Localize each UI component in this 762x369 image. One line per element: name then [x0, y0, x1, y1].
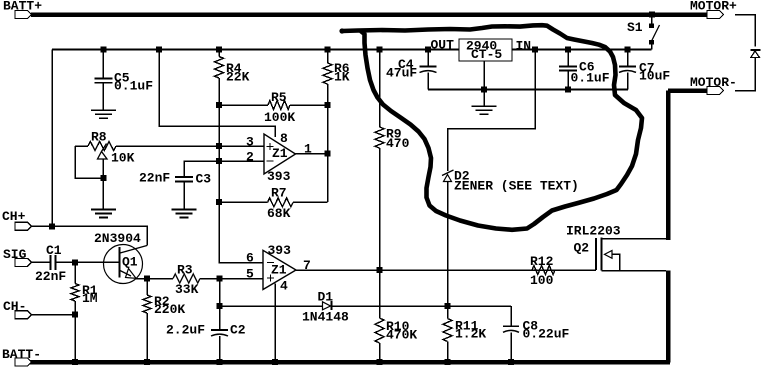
junction output / column — [325, 151, 331, 157]
junction rail / C4 — [425, 47, 431, 53]
svg-text:OUT: OUT — [431, 38, 455, 53]
Q2 source wire — [602, 270, 667, 272]
junction BATT- / R11 — [445, 359, 451, 365]
wire 2940 ground pin — [483, 61, 485, 106]
junction ground rail / 2940 gnd — [481, 87, 487, 93]
resistor R2 — [144, 276, 150, 282]
svg-text:3: 3 — [246, 134, 254, 149]
capacitor C2 — [219, 279, 221, 330]
svg-text:0.1uF: 0.1uF — [571, 70, 610, 85]
junction ground rail / C6 — [565, 87, 571, 93]
junction R8 low end / wiper — [100, 175, 106, 181]
svg-text:1K: 1K — [334, 70, 350, 85]
wire Q2 source to BATT- (thick) — [666, 271, 671, 363]
svg-text:100K: 100K — [264, 110, 295, 125]
junction rail / R6 — [325, 47, 331, 53]
svg-text:6: 6 — [246, 250, 254, 265]
svg-text:Q2: Q2 — [574, 241, 590, 256]
capacitor C4 — [427, 50, 429, 67]
svg-text:10K: 10K — [111, 150, 135, 165]
resistor R6 — [327, 50, 329, 64]
resistor R10 — [379, 270, 381, 318]
junction BATT+ / S1 — [649, 12, 655, 18]
svg-text:22K: 22K — [226, 70, 250, 85]
op-amp Z1 first half (393) — [264, 134, 296, 174]
svg-text:C2: C2 — [230, 323, 246, 338]
svg-text:2N3904: 2N3904 — [94, 231, 141, 246]
junction BATT- / R1 column — [72, 359, 78, 365]
svg-text:Z1: Z1 — [271, 263, 287, 278]
svg-text:22nF: 22nF — [139, 170, 170, 185]
junction BATT- / R2 — [144, 359, 150, 365]
wire column to Z1b pin 6 — [219, 202, 263, 263]
svg-text:393: 393 — [268, 243, 292, 258]
svg-text:ZENER (SEE TEXT): ZENER (SEE TEXT) — [454, 179, 579, 194]
svg-text:4: 4 — [280, 279, 288, 294]
wire diode to MOTOR- — [735, 58, 755, 91]
wire output column down to R7 — [327, 105, 329, 202]
capacitor C7 — [627, 50, 629, 67]
wire left branch down to CH+ — [51, 50, 53, 227]
svg-text:C3: C3 — [196, 171, 212, 186]
ground return rail — [428, 89, 628, 91]
junction C2 node / D1 row — [217, 303, 223, 309]
junction D1 row / D2 / R11 — [445, 303, 451, 309]
svg-text:1.2K: 1.2K — [455, 326, 486, 341]
junction pin2 / column — [216, 158, 222, 164]
junction CH+ / supply branch — [49, 223, 55, 229]
wire CH- junction — [32, 314, 75, 316]
junction C1 / R1 / Q1 base — [72, 259, 78, 265]
junction BATT- / C2 — [217, 359, 223, 365]
junction BATT- / pin4 — [272, 359, 278, 365]
junction R5 / R6 / Z1 output column — [325, 102, 331, 108]
svg-text:2.2uF: 2.2uF — [166, 323, 205, 338]
junction BATT- / R10 — [377, 359, 383, 365]
svg-text:2: 2 — [246, 149, 254, 164]
capacitor C3 — [175, 176, 193, 178]
svg-text:5: 5 — [246, 266, 254, 281]
svg-text:22nF: 22nF — [35, 269, 66, 284]
junction rail / zener branch — [532, 47, 538, 53]
capacitor C5 — [102, 50, 104, 79]
junction R7 / column — [216, 199, 222, 205]
svg-text:8: 8 — [280, 131, 288, 146]
svg-text:393: 393 — [267, 169, 291, 184]
svg-text:33K: 33K — [175, 282, 199, 297]
capacitor C8 — [503, 325, 519, 327]
svg-text:IN: IN — [516, 38, 532, 53]
zener diode D2 — [442, 170, 454, 176]
node BATT- rail (thick) — [30, 360, 670, 365]
junction pin7 / R9 / R10 — [377, 267, 383, 273]
junction R1 / CH- — [72, 312, 78, 318]
wire D1 row corner to C8 — [510, 306, 512, 326]
junction R4 / R5 / pin3 column — [216, 102, 222, 108]
freehand marker loop annotation — [339, 25, 642, 230]
wire MOTOR- to Q2 drain (thick) — [668, 91, 707, 241]
wire rail to Z1 pin 8 — [159, 50, 275, 138]
svg-text:10uF: 10uF — [639, 68, 670, 83]
ground below R8 wiper — [91, 209, 116, 211]
wire pin 2 to C3 — [184, 161, 264, 177]
junction rail / C7 — [625, 47, 631, 53]
capacitor C6 — [567, 50, 569, 67]
svg-text:CT-5: CT-5 — [471, 47, 502, 62]
junction pin3 / R4-R5 column — [216, 143, 222, 149]
R8 wiper arrow — [98, 144, 108, 160]
svg-text:1: 1 — [304, 141, 312, 156]
junction BATT- / C8 — [508, 359, 514, 365]
wire Z1b pin 4 to BATT- — [274, 284, 276, 363]
junction rail / R4 — [216, 47, 222, 53]
node regulated supply rail — [52, 49, 459, 51]
svg-text:1N4148: 1N4148 — [302, 309, 349, 324]
junction rail / C5 — [100, 47, 106, 53]
diode D3 flyback across motor — [751, 49, 761, 51]
svg-text:Q1: Q1 — [122, 255, 138, 270]
svg-text:47uF: 47uF — [386, 65, 417, 80]
Q1 collector diagonal — [120, 246, 147, 254]
svg-text:Z1: Z1 — [272, 146, 288, 161]
resistor R11 — [447, 306, 449, 319]
wire rail to zener D2 — [448, 50, 536, 172]
svg-text:100: 100 — [530, 273, 554, 288]
junction rail / R9 — [377, 47, 383, 53]
wire R1 column to BATT- — [74, 315, 76, 362]
svg-text:68K: 68K — [267, 206, 291, 221]
svg-text:IRL2203: IRL2203 — [566, 224, 621, 239]
wire R8 to Z1 pin 3 — [116, 145, 264, 147]
resistor R9 pull-up — [379, 50, 381, 128]
node BATT+ rail (thick wire to S1 and MOTOR+) — [31, 12, 707, 17]
svg-text:R5: R5 — [271, 90, 287, 105]
junction R3 / Z1b pin5 / C2 — [217, 276, 223, 282]
wire CH+ to Q1 collector — [32, 226, 147, 245]
ground below 2940 — [472, 105, 497, 107]
ground below C5 — [91, 109, 116, 111]
wire MOTOR+ to diode (thin L) — [735, 15, 755, 47]
junction rail / C6 — [565, 47, 571, 53]
Q2 drain wire — [602, 238, 667, 240]
wire base — [75, 261, 120, 263]
svg-text:C1: C1 — [46, 243, 62, 258]
wire Z1a output pin 1 — [296, 153, 328, 155]
svg-text:0.1uF: 0.1uF — [114, 78, 153, 93]
svg-text:0.22uF: 0.22uF — [523, 326, 570, 341]
wire column pin3-pin2-R7 — [218, 105, 220, 202]
Q1 emitter with arrow — [120, 271, 131, 277]
svg-text:S1: S1 — [627, 20, 643, 35]
wire D1 row left — [220, 305, 323, 307]
op-amp Z1 second half (393) — [263, 250, 296, 289]
wire D1 row right — [332, 305, 512, 307]
junction rail / Z1 pin 8 branch — [156, 47, 162, 53]
svg-text:220K: 220K — [154, 302, 185, 317]
svg-text:1M: 1M — [82, 291, 98, 306]
resistor R1 — [74, 262, 76, 283]
resistor R4 — [218, 50, 220, 57]
ground below C3 — [172, 209, 197, 211]
svg-text:CH+: CH+ — [2, 209, 26, 224]
svg-text:470: 470 — [386, 136, 410, 151]
Q2 body arrow — [605, 251, 613, 259]
svg-text:470K: 470K — [386, 327, 417, 342]
